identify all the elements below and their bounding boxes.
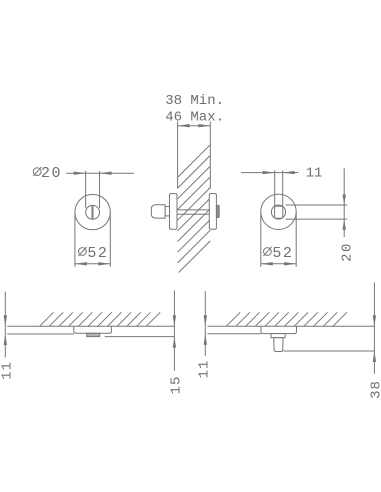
right figure: outer rose circle d52 bbox=[261, 194, 296, 229]
thumbturn stem profile bbox=[274, 338, 283, 352]
11 dimension line bbox=[241, 172, 298, 174]
20 dim arrow upper bbox=[343, 194, 346, 205]
bottom-right hatching bbox=[226, 312, 347, 326]
thumbturn collar profile bbox=[271, 334, 285, 338]
bottom-left rose profile bbox=[74, 326, 112, 333]
svg-text:38: 38 bbox=[369, 380, 381, 399]
turn width ext line left bbox=[274, 170, 276, 206]
15 arrow lower bbox=[173, 337, 176, 348]
right d52 label bbox=[263, 245, 293, 262]
bottom-left 11 dimension line bbox=[4, 292, 6, 358]
svg-text:52: 52 bbox=[272, 245, 293, 262]
right d52 extension line right bbox=[295, 213, 297, 267]
bottom-right figure: door surface line bbox=[208, 325, 375, 327]
cylinder knob bbox=[151, 205, 165, 218]
left rose plate (side view) bbox=[170, 194, 178, 230]
wall dim arrow left bbox=[178, 124, 190, 127]
wall hatching bbox=[178, 145, 211, 273]
turn width ext line right bbox=[282, 170, 284, 206]
20 ext line bottom bbox=[286, 218, 348, 220]
svg-text:38 Min.: 38 Min. bbox=[165, 93, 224, 109]
38 arrow lower bbox=[373, 351, 376, 362]
d20 dimension line bbox=[66, 172, 134, 174]
bottom-left hatching bbox=[40, 312, 161, 326]
right d52 arrow right bbox=[284, 262, 296, 265]
svg-text:20: 20 bbox=[41, 165, 62, 182]
15 arrow upper bbox=[173, 315, 176, 326]
20 dimension line vertical bbox=[343, 168, 345, 237]
left figure: cylinder circle d20 bbox=[86, 205, 100, 219]
left figure: outer rose circle d52 bbox=[75, 194, 110, 229]
right d52 extension line left bbox=[260, 213, 262, 267]
left d52 extension line left bbox=[74, 213, 76, 267]
svg-text:52: 52 bbox=[87, 245, 108, 262]
11 dim arrow left bbox=[263, 171, 275, 174]
15 dimension line bbox=[173, 291, 175, 371]
bottom-left 11 arrow upper bbox=[4, 315, 7, 326]
left d52 label bbox=[78, 245, 108, 262]
bottom-right 11 arrow lower bbox=[204, 334, 207, 345]
bottom-left 11 arrow lower bbox=[4, 334, 7, 345]
bottom-right rose profile bbox=[261, 326, 297, 333]
thumbturn bump (edge view) bbox=[216, 205, 219, 217]
d20 label bbox=[33, 165, 62, 182]
bottom-left cylinder end (gray) bbox=[87, 333, 100, 336]
38 arrow upper bbox=[373, 315, 376, 326]
left d52 arrow right bbox=[98, 262, 110, 265]
38 ext line (stem bottom) bbox=[283, 350, 374, 352]
right figure: thumbturn paddle bbox=[275, 206, 283, 218]
svg-text:46 Max.: 46 Max. bbox=[165, 109, 224, 125]
svg-text:15: 15 bbox=[168, 376, 184, 395]
11 ext line (rose bottom) right fig bbox=[208, 333, 262, 335]
bottom-left figure: door surface line bbox=[7, 325, 174, 327]
left d52 arrow left bbox=[75, 262, 87, 265]
right d52 arrow left bbox=[261, 262, 273, 265]
20 dim arrow lower bbox=[343, 219, 346, 230]
11 ext line (rose bottom) left fig bbox=[7, 333, 74, 335]
spindle through wall bbox=[177, 209, 209, 211]
wall left boundary line bbox=[177, 122, 179, 189]
20 ext line top bbox=[286, 204, 348, 206]
svg-text:11: 11 bbox=[0, 361, 15, 380]
svg-text:11: 11 bbox=[306, 166, 323, 182]
15 ext line (cylinder bottom) left fig bbox=[105, 336, 175, 338]
svg-text:20: 20 bbox=[339, 242, 355, 262]
left d52 dimension line bbox=[75, 263, 110, 265]
bottom-right 11 arrow upper bbox=[204, 315, 207, 326]
bottom-right 11 dimension line bbox=[204, 291, 206, 356]
svg-text:11: 11 bbox=[196, 360, 212, 379]
d20 dim arrow right bbox=[100, 172, 112, 175]
d20 dim arrow left bbox=[74, 172, 86, 175]
left d52 extension line right bbox=[109, 213, 111, 267]
wall thickness dimension line bbox=[178, 125, 211, 127]
cylinder neck bbox=[165, 207, 169, 216]
d20 extension line right bbox=[99, 171, 101, 208]
38 dimension line bbox=[373, 283, 375, 374]
right d52 dimension line bbox=[261, 263, 296, 265]
right rose plate (side view) bbox=[209, 194, 216, 230]
11 dim arrow right bbox=[283, 171, 295, 174]
d20 extension line left bbox=[85, 171, 87, 208]
left figure: key slot bbox=[91, 206, 93, 220]
wall dim arrow right bbox=[198, 124, 210, 127]
right figure: inner circle d20 bbox=[271, 205, 285, 219]
wall right boundary line bbox=[209, 122, 211, 189]
